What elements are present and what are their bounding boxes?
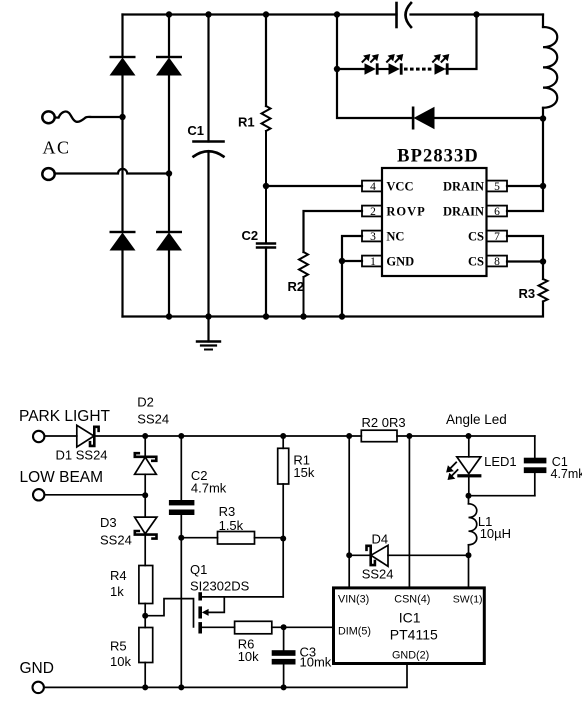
svg-text:1: 1 — [370, 256, 376, 268]
svg-text:6: 6 — [494, 206, 500, 218]
svg-text:10mk: 10mk — [300, 655, 332, 670]
svg-text:VCC: VCC — [386, 180, 413, 194]
svg-text:5: 5 — [494, 181, 500, 193]
svg-text:AC: AC — [43, 138, 71, 158]
svg-text:SW(1): SW(1) — [453, 594, 483, 606]
svg-text:D3: D3 — [100, 515, 117, 530]
svg-text:GND(2): GND(2) — [392, 650, 429, 662]
svg-text:BP2833D: BP2833D — [397, 147, 479, 167]
svg-text:10k: 10k — [238, 649, 259, 664]
svg-text:GND: GND — [20, 660, 54, 677]
svg-text:SS24: SS24 — [362, 567, 394, 582]
svg-text:VIN(3): VIN(3) — [338, 594, 369, 606]
svg-text:R3: R3 — [219, 504, 236, 519]
svg-text:CS: CS — [468, 230, 484, 244]
svg-text:D1 SS24: D1 SS24 — [56, 448, 108, 463]
svg-text:1.5k: 1.5k — [219, 518, 244, 533]
svg-text:R1: R1 — [238, 115, 255, 130]
svg-text:DRAIN: DRAIN — [443, 180, 484, 194]
svg-text:R2 0R3: R2 0R3 — [362, 415, 406, 430]
svg-text:3: 3 — [370, 231, 376, 243]
svg-text:4.7mk: 4.7mk — [551, 467, 582, 481]
svg-text:PARK LIGHT: PARK LIGHT — [19, 408, 111, 425]
svg-text:Q1: Q1 — [190, 562, 207, 577]
svg-text:CSN(4): CSN(4) — [394, 594, 430, 606]
svg-text:8: 8 — [494, 256, 500, 268]
svg-text:CS: CS — [468, 255, 484, 269]
svg-text:NC: NC — [386, 230, 404, 244]
svg-text:7: 7 — [494, 231, 500, 243]
svg-text:10µH: 10µH — [480, 526, 511, 541]
svg-text:LOW BEAM: LOW BEAM — [20, 469, 104, 486]
svg-text:ROVP: ROVP — [386, 205, 425, 219]
svg-text:4.7mk: 4.7mk — [191, 481, 227, 496]
svg-text:D2: D2 — [137, 395, 154, 410]
svg-text:C2: C2 — [242, 228, 259, 243]
svg-text:SS24: SS24 — [137, 412, 169, 427]
svg-text:2: 2 — [370, 206, 376, 218]
svg-text:DRAIN: DRAIN — [443, 205, 484, 219]
svg-text:R2: R2 — [288, 279, 305, 294]
svg-text:R3: R3 — [519, 286, 536, 301]
svg-text:SS24: SS24 — [100, 533, 132, 548]
svg-text:DIM(5): DIM(5) — [338, 625, 371, 637]
svg-text:15k: 15k — [293, 465, 314, 480]
svg-text:LED1: LED1 — [484, 454, 517, 469]
svg-text:1k: 1k — [110, 584, 124, 599]
svg-text:IC1: IC1 — [399, 610, 421, 626]
svg-text:10k: 10k — [110, 654, 131, 669]
svg-text:PT4115: PT4115 — [390, 627, 438, 643]
svg-text:4: 4 — [370, 181, 376, 193]
svg-text:GND: GND — [386, 255, 414, 269]
svg-text:SI2302DS: SI2302DS — [190, 579, 250, 594]
svg-text:R4: R4 — [110, 568, 127, 583]
svg-text:R5: R5 — [110, 639, 127, 654]
svg-text:D4: D4 — [372, 532, 389, 547]
svg-text:Angle Led: Angle Led — [446, 412, 507, 427]
svg-text:C1: C1 — [187, 123, 204, 138]
